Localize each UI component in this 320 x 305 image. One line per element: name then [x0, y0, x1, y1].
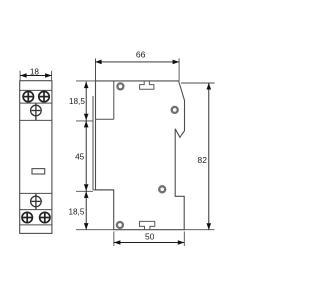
dimension 82 extension lines — [181, 83, 215, 230]
internal horizontal edge of rail recess block — [96, 118, 114, 120]
screw terminal bottom-left — [22, 212, 32, 222]
left dimension arrows — [84, 82, 89, 89]
step edge at bottom-left of side view — [93, 189, 114, 191]
dimension 66 extension lines — [178, 58, 180, 81]
svg-text:50: 50 — [145, 232, 155, 242]
dimension 66 arrows — [95, 60, 102, 65]
screw terminal top-center — [31, 103, 42, 120]
svg-text:18: 18 — [30, 67, 40, 76]
dimension 50 line — [114, 242, 184, 244]
dimension 18 line — [20, 75, 51, 77]
svg-text:18,5: 18,5 — [68, 208, 84, 217]
left dimension chain line — [85, 82, 87, 230]
hole upper-right of side view — [172, 107, 178, 113]
dimension 50 arrows — [114, 240, 121, 245]
top clip tab — [140, 81, 154, 89]
front view outline — [20, 81, 52, 234]
svg-text:45: 45 — [75, 153, 85, 162]
side view outline — [96, 81, 185, 230]
hole bottom-left of side view — [117, 222, 123, 228]
dimension 66 line — [95, 61, 179, 63]
screw terminal bottom-center — [31, 194, 42, 210]
hole lower-middle of side view — [159, 186, 165, 192]
svg-text:82: 82 — [198, 155, 208, 165]
dimension 66 left extension line — [95, 59, 97, 81]
dimension 18 extension lines — [20, 71, 51, 80]
internal vertical edge of rail recess block — [113, 81, 115, 119]
rail groove inner line — [92, 96, 94, 190]
dimension 18 arrows — [20, 73, 27, 78]
hole top-left of side view — [117, 83, 123, 89]
dimension 50 extension lines — [114, 232, 184, 247]
dimension 82 line — [208, 83, 210, 230]
bottom clip tab — [140, 221, 155, 229]
screw terminal top-left — [23, 91, 33, 101]
dimension 82 arrows — [207, 83, 212, 90]
front view divider lines — [20, 90, 52, 225]
screw terminal top-right — [39, 91, 49, 101]
svg-text:66: 66 — [136, 49, 146, 59]
svg-text:18,5: 18,5 — [69, 97, 85, 106]
screw terminal bottom-right — [40, 212, 50, 222]
label window on front view — [32, 169, 45, 174]
left dimension extension lines — [76, 81, 114, 230]
